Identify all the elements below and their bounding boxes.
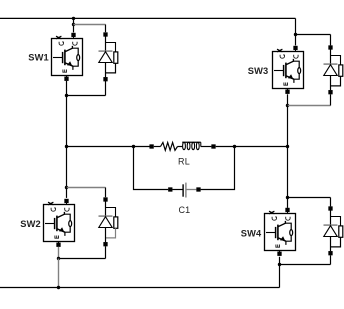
- wire: top bus drop to SW3 collector: [295, 18, 297, 45]
- diode D1 (freewheel diode + snubber, SW1 cell): [103, 32, 107, 36]
- node: junction SW4-emitter / D4: [278, 263, 281, 266]
- wire: right phase leg down to load row: [287, 106, 289, 147]
- wire: C1 branch right riser and lead: [201, 147, 235, 190]
- node: junction right leg / load wire: [286, 145, 289, 148]
- wire: SW2 emitter to bottom bus: [58, 259, 60, 288]
- wire: branch to D2 bottom: [59, 258, 106, 260]
- diode D2 (freewheel diode + snubber, SW2 cell): [103, 197, 107, 201]
- wire: branch to D1 cathode-bottom: [67, 95, 106, 97]
- wire: into SW4 collector port: [287, 198, 289, 208]
- node: junction branching to D2: [65, 186, 68, 189]
- node: junction to C1 branch left riser: [132, 145, 135, 148]
- wire: RL output to node B: [216, 146, 288, 148]
- wire: into SW2 collector port: [66, 188, 68, 198]
- wire: SW3 emitter down to node B: [287, 94, 289, 105]
- wire: SW4 emitter down: [279, 257, 281, 265]
- svg-text:SW1: SW1: [28, 53, 48, 63]
- transistor SW1 (IGBT block): [52, 39, 83, 76]
- node: junction to C1 branch right riser: [233, 145, 236, 148]
- wire: branch to diode D4 top: [288, 197, 331, 199]
- svg-text:SW2: SW2: [20, 219, 40, 229]
- node: junction on bottom bus: [57, 286, 60, 289]
- svg-text:RL: RL: [178, 157, 190, 167]
- node: junction SW1-emitter / D1 / phase A: [65, 94, 68, 97]
- node: junction on top bus above SW1: [72, 17, 75, 20]
- svg-text:C1: C1: [178, 205, 190, 215]
- capacitor C1: [168, 183, 201, 198]
- node: junction branching to SW3 freewheel diode: [294, 33, 297, 36]
- resistor-inductor series branch RL: [149, 142, 215, 150]
- node: junction SW2-emitter / D2: [57, 257, 60, 260]
- wire: C1 branch left riser and lead: [134, 147, 169, 190]
- transistor SW4 (IGBT block): [265, 214, 296, 251]
- node: junction branching to SW1 freewheel diode: [72, 23, 75, 26]
- diode D3 (freewheel diode + snubber, SW3 cell): [328, 45, 332, 49]
- svg-text:SW3: SW3: [248, 66, 268, 76]
- transistor SW2 (IGBT block): [44, 205, 75, 242]
- wire: SW1 emitter down to midpoint node A: [66, 81, 68, 96]
- wire: branch to diode D3 top: [296, 34, 331, 36]
- wire: branch to diode D2 top: [67, 187, 106, 189]
- wire: load row from node A to RL input: [67, 146, 150, 148]
- wire: bottom negative bus: [0, 287, 280, 289]
- wire: drop from top bus to SW1 collector: [73, 18, 75, 32]
- wire: right leg continues to SW4 collector: [287, 147, 289, 198]
- wire: left leg continues to SW2 collector: [66, 147, 68, 188]
- wire: left phase leg down to load row: [66, 96, 68, 147]
- node: junction SW3-emitter / D3 / phase B: [286, 104, 289, 107]
- wire: branch to D4 bottom: [280, 264, 331, 266]
- diode D4 (freewheel diode + snubber, SW4 cell): [328, 206, 332, 210]
- node: junction left leg / load wire: [65, 145, 68, 148]
- wire: branch to diode D1 anode-top: [74, 24, 106, 26]
- wire: branch to D3 bottom: [288, 105, 331, 107]
- wire: SW2 emitter down: [58, 247, 60, 259]
- svg-text:SW4: SW4: [241, 229, 262, 239]
- node: junction branching to D4: [286, 196, 289, 199]
- wire: SW4 emitter to bottom bus corner: [279, 265, 281, 288]
- wire: top positive bus: [0, 17, 296, 19]
- transistor SW3 (IGBT block): [273, 52, 304, 89]
